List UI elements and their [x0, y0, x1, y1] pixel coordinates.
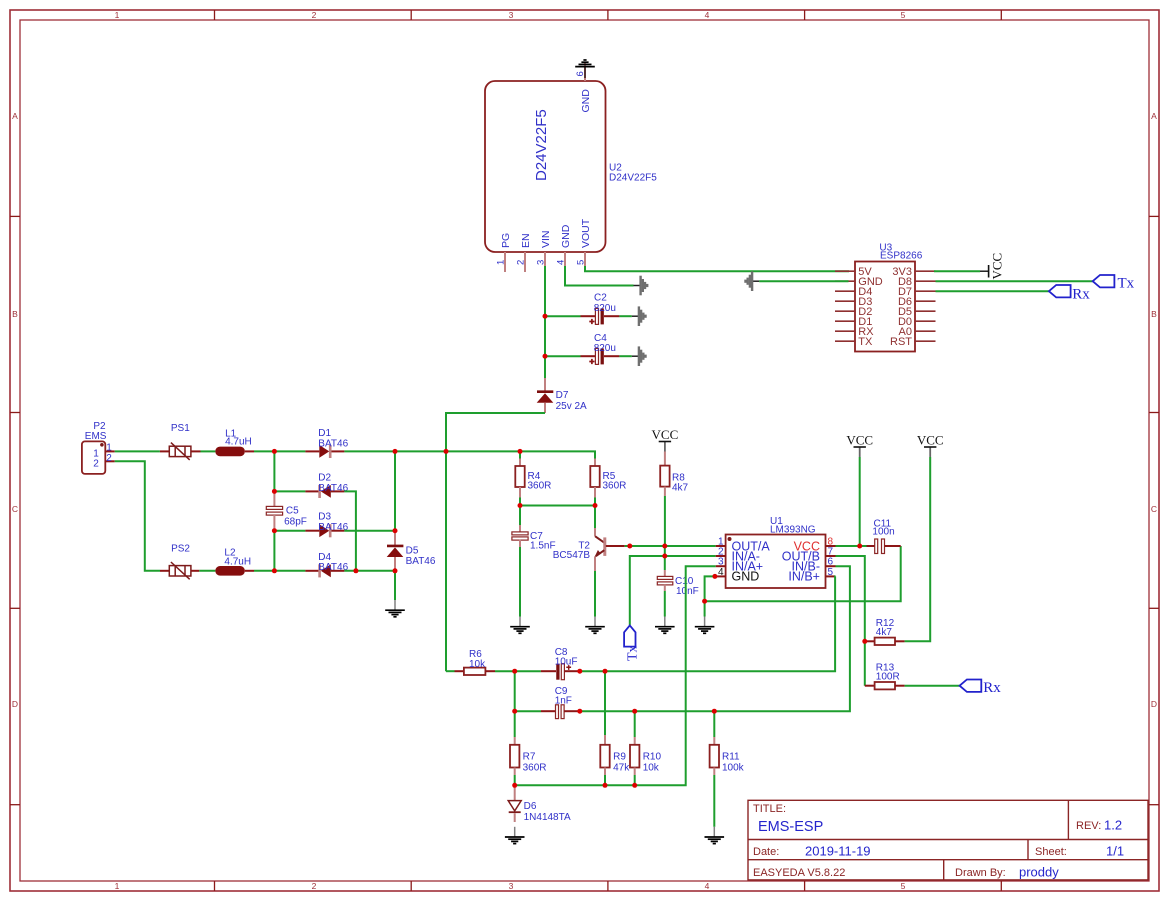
port Tx (bottom): [624, 625, 635, 646]
svg-text:BAT46: BAT46: [318, 522, 348, 533]
node C10/row2: [662, 554, 667, 559]
capacitor C4: [581, 355, 596, 357]
wire D7 to Rx port: [936, 290, 1049, 292]
svg-text:GND: GND: [732, 570, 760, 584]
wire U1 pin6 down to C9 row: [580, 566, 850, 711]
svg-text:VIN: VIN: [540, 230, 552, 248]
svg-text:BAT46: BAT46: [318, 483, 348, 494]
ground below D6: [505, 827, 525, 844]
ground at C4 (arrow): [632, 346, 646, 366]
wire C4 right: [619, 355, 631, 357]
node R10 top: [632, 709, 637, 714]
svg-text:IN/B+: IN/B+: [788, 570, 820, 584]
svg-text:TITLE:: TITLE:: [753, 803, 786, 815]
svg-text:EN: EN: [520, 233, 532, 248]
resistor R4 360R: [519, 451, 521, 458]
svg-text:3: 3: [536, 260, 547, 265]
ground at U2 pin4 (arrow): [634, 276, 648, 296]
U1 pin 7 OUT/B: [826, 555, 836, 557]
svg-text:4: 4: [556, 260, 567, 265]
wire D2 row left: [274, 490, 305, 492]
svg-text:1.5nF: 1.5nF: [530, 541, 556, 552]
svg-text:D7: D7: [556, 390, 569, 401]
node gnd link: [702, 599, 707, 604]
wire x395 vertical: [394, 451, 396, 531]
U2 pin 2 EN: [524, 252, 526, 272]
fuse PS2: [160, 570, 169, 572]
wire PS1 to L1: [201, 450, 216, 452]
wire C10 to ground: [664, 591, 666, 617]
resistor R12 4k7: [865, 640, 875, 642]
node base wire: [627, 544, 632, 549]
svg-text:TX: TX: [858, 336, 873, 348]
svg-text:R11: R11: [722, 752, 740, 763]
node R8/C10 top: [662, 544, 667, 549]
diode D5 BAT46 (vertical): [394, 532, 396, 546]
resistor R10 10k: [634, 711, 636, 737]
svg-text:D3: D3: [318, 512, 331, 523]
svg-text:D6: D6: [524, 801, 537, 812]
wire U1 pin5 down to C8 row: [580, 576, 836, 671]
ground below R11: [705, 827, 725, 844]
svg-text:6: 6: [575, 71, 586, 76]
svg-text:D24V22F5: D24V22F5: [609, 173, 657, 184]
wire PS2 to L2: [199, 570, 215, 572]
svg-text:EASYEDA V5.8.22: EASYEDA V5.8.22: [753, 867, 845, 879]
svg-text:EMS: EMS: [85, 431, 107, 442]
wire R12 to VCC: [905, 457, 931, 641]
wire T2 emitter to ground: [594, 571, 596, 617]
svg-text:A: A: [12, 111, 18, 121]
svg-text:D4: D4: [318, 552, 331, 563]
wire C2 right: [619, 315, 631, 317]
wire gnd link to C11 right: [705, 546, 901, 601]
wire P2.1 to PS1: [115, 450, 160, 452]
svg-text:100n: 100n: [872, 527, 894, 538]
node bottom row R10: [632, 783, 637, 788]
svg-text:D: D: [12, 699, 18, 709]
fuse PS1: [160, 450, 169, 452]
connector P2 EMS: [82, 441, 105, 474]
capacitor C10 10nF: [664, 546, 666, 570]
node D3/x395 junction: [393, 528, 398, 533]
svg-text:820u: 820u: [594, 343, 616, 354]
svg-text:1.2: 1.2: [1104, 818, 1122, 833]
svg-text:4.7uH: 4.7uH: [224, 556, 251, 567]
node D4/x395 junction: [393, 568, 398, 573]
capacitor C5 68pF: [273, 491, 275, 506]
wire D1 to R4/R5 rail: [344, 451, 595, 458]
U1 pin 2 IN/A-: [716, 555, 726, 557]
svg-text:ESP8266: ESP8266: [880, 251, 923, 262]
svg-text:GND: GND: [580, 89, 592, 113]
node rail x395: [393, 449, 398, 454]
wire 3V3 to VCC: [934, 270, 980, 272]
U1 pin 3 IN/A+: [716, 565, 726, 567]
wire R6 to C8: [495, 670, 541, 672]
svg-text:D2: D2: [318, 472, 331, 483]
wire VOUT to U3 5V: [585, 266, 849, 271]
wire D4 row to x395: [344, 570, 395, 572]
svg-text:360R: 360R: [603, 481, 627, 492]
port Rx: [1049, 285, 1071, 297]
svg-text:2: 2: [312, 881, 317, 891]
node L2/D4 junction: [272, 568, 277, 573]
svg-text:4.7uH: 4.7uH: [225, 437, 252, 448]
svg-text:Rx: Rx: [1072, 287, 1090, 303]
wire R6 row from x446: [446, 670, 455, 672]
ground below C7: [510, 617, 530, 634]
U3 body: [855, 262, 915, 352]
wire U1 pin3 to bottom row: [515, 566, 716, 785]
node R7 top junction: [512, 669, 517, 674]
capacitor C7 1.5nF: [519, 506, 521, 526]
node bottom row R9: [603, 783, 608, 788]
wire P2.2 down and to PS2: [115, 461, 160, 571]
ground above U2 pin 6 (inverted earth): [575, 60, 595, 67]
svg-text:100R: 100R: [876, 672, 900, 683]
ground below D5: [385, 600, 405, 617]
node R11 top: [712, 709, 717, 714]
node rail R4 top: [518, 449, 523, 454]
diode D2 BAT46 (pointing left): [305, 490, 318, 492]
resistor R9 47k: [604, 671, 606, 735]
VCC flag above R8: [652, 427, 679, 452]
diode D6 1N4148TA: [514, 785, 516, 800]
svg-text:C: C: [1151, 504, 1157, 514]
node L1/D1 junction: [272, 449, 277, 454]
svg-text:2: 2: [516, 260, 527, 265]
svg-text:BAT46: BAT46: [318, 562, 348, 573]
svg-text:10k: 10k: [469, 659, 486, 670]
wire U1 pin4 GND: [705, 576, 716, 616]
svg-text:1nF: 1nF: [555, 696, 572, 707]
svg-text:1: 1: [115, 881, 120, 891]
svg-text:PS1: PS1: [171, 423, 190, 434]
P2 pin 1: [105, 450, 114, 452]
svg-text:proddy: proddy: [1019, 865, 1059, 880]
port Tx: [1093, 275, 1115, 287]
svg-text:Tx: Tx: [1118, 276, 1135, 292]
U1 pin 5 IN/B+: [826, 575, 836, 577]
resistor R5 360R: [594, 459, 596, 467]
svg-text:5: 5: [576, 260, 587, 265]
svg-text:PS2: PS2: [171, 544, 190, 555]
VCC net flag at U3 3V3 (rotated): [980, 270, 989, 272]
U3 left pins 5V GND D4 D3 D2 D1 RX TX: [835, 271, 855, 341]
svg-text:1: 1: [496, 260, 507, 265]
wire D2 to vertical x356: [344, 491, 356, 570]
svg-text:10nF: 10nF: [676, 586, 699, 597]
svg-text:Sheet:: Sheet:: [1035, 846, 1067, 858]
svg-text:BC547B: BC547B: [553, 550, 591, 561]
resistor R6 10k: [455, 670, 464, 672]
U2 pin 5 VOUT: [584, 252, 586, 267]
wire U2 GND pin4: [565, 266, 634, 286]
resistor R13 100R: [865, 685, 875, 687]
svg-text:VOUT: VOUT: [580, 218, 592, 248]
svg-text:4: 4: [705, 10, 710, 20]
wire T2 base lead: [606, 545, 625, 547]
wire L1 to D1: [254, 450, 305, 452]
TITLE BLOCK: [748, 800, 1148, 880]
wire U1 pin8 to C11: [836, 545, 867, 547]
svg-text:D24V22F5: D24V22F5: [533, 109, 550, 181]
svg-text:820u: 820u: [594, 303, 616, 314]
svg-text:2: 2: [93, 458, 99, 469]
node C9 right: [577, 709, 582, 714]
svg-text:4k7: 4k7: [876, 627, 893, 638]
svg-text:2: 2: [106, 453, 112, 464]
svg-text:GND: GND: [560, 224, 572, 248]
ground below U1 pin4: [695, 617, 715, 634]
svg-text:EMS-ESP: EMS-ESP: [758, 819, 823, 835]
wire IN/A- row: [630, 556, 716, 625]
U2 pin 3 VIN: [544, 252, 546, 267]
svg-text:1N4148TA: 1N4148TA: [524, 812, 571, 823]
svg-text:LM393NG: LM393NG: [770, 524, 816, 535]
resistor R7 360R: [514, 737, 516, 745]
svg-text:2: 2: [312, 10, 317, 20]
diode D7 25v 2A: [544, 378, 546, 391]
svg-text:B: B: [1151, 309, 1157, 319]
svg-text:100k: 100k: [722, 763, 745, 774]
svg-text:5: 5: [901, 881, 906, 891]
wire C9 row left: [515, 710, 541, 712]
ground below C10: [655, 617, 675, 634]
U2 pin 1 PG: [504, 252, 506, 272]
svg-text:Rx: Rx: [983, 680, 1001, 696]
VCC flag above U1 pin8: [846, 433, 873, 458]
svg-text:360R: 360R: [523, 763, 547, 774]
ground below T2: [585, 617, 605, 634]
wire R13 to Rx port: [905, 685, 960, 687]
svg-text:68pF: 68pF: [284, 517, 307, 528]
wire C4 left: [545, 355, 581, 357]
node D4/x356 junction: [353, 568, 358, 573]
capacitor C11 100n: [867, 545, 875, 547]
svg-text:5: 5: [901, 10, 906, 20]
ground at U3 GND (arrow left): [746, 271, 760, 291]
capacitor C8 10uF: [541, 670, 556, 672]
node R9 top: [603, 669, 608, 674]
wire D5 to ground: [394, 571, 396, 600]
wire C2 left: [545, 315, 581, 317]
svg-text:BAT46: BAT46: [318, 438, 348, 449]
svg-text:D: D: [1151, 699, 1157, 709]
U2 body: [485, 81, 606, 252]
svg-text:4k7: 4k7: [672, 483, 689, 494]
resistor R8 4k7: [664, 452, 666, 466]
U1 pin 8 VCC: [826, 545, 836, 547]
node C9 left: [512, 709, 517, 714]
node D3 junction: [272, 528, 277, 533]
svg-text:D1: D1: [318, 428, 331, 439]
resistor R11 100k: [713, 711, 715, 737]
U2 pin 6 GND top: [584, 62, 586, 82]
U1 body: [726, 535, 826, 589]
svg-text:2019-11-19: 2019-11-19: [805, 844, 871, 859]
svg-text:3: 3: [509, 881, 514, 891]
svg-text:4: 4: [705, 881, 710, 891]
node bottom row R7: [512, 783, 517, 788]
ground at C2 (arrow): [632, 306, 646, 326]
node main rail junction: [444, 449, 449, 454]
inductor L2 4.7uH: [215, 566, 244, 576]
svg-text:VCC: VCC: [990, 253, 1005, 280]
svg-text:360R: 360R: [528, 481, 552, 492]
svg-text:R7: R7: [523, 752, 536, 763]
svg-text:4: 4: [718, 567, 724, 578]
U3 right pins 3V3 D8 D7 D6 D5 D0 A0 RST: [915, 271, 936, 341]
node R4 bottom: [518, 503, 523, 508]
svg-text:Drawn By:: Drawn By:: [955, 867, 1006, 879]
svg-text:R10: R10: [643, 752, 662, 763]
capacitor C9 1nF: [541, 710, 555, 712]
U2 pin 4 GND: [564, 252, 566, 267]
svg-text:C: C: [12, 504, 18, 514]
svg-text:3: 3: [509, 10, 514, 20]
P2 pin 2: [105, 460, 114, 462]
wire x514 vertical to R7: [514, 671, 516, 737]
svg-text:10uF: 10uF: [555, 657, 578, 668]
wire D3 to x395: [344, 530, 395, 532]
VCC flag above R12: [917, 433, 944, 458]
wire L2 to D4: [254, 570, 305, 572]
svg-text:1/1: 1/1: [1106, 844, 1124, 859]
capacitor C2: [581, 315, 596, 317]
svg-text:Tx: Tx: [626, 645, 641, 661]
U1 pin 4 GND: [716, 575, 726, 577]
port Rx (bottom): [960, 680, 982, 692]
svg-text:5: 5: [828, 567, 834, 578]
node pin4: [712, 574, 717, 579]
diode D3 BAT46: [305, 530, 319, 532]
svg-text:RST: RST: [890, 336, 912, 348]
wire U1 pin7 down: [836, 556, 865, 686]
wire D8 to Tx port: [936, 280, 1093, 282]
transistor T2 BC547B: [594, 506, 596, 529]
node R5 bottom: [593, 503, 598, 508]
svg-text:25v 2A: 25v 2A: [556, 401, 587, 412]
svg-text:B: B: [12, 309, 18, 319]
wire D7 bottom to left: [446, 413, 545, 671]
inductor L1 4.7uH: [215, 447, 244, 457]
svg-text:10k: 10k: [643, 763, 660, 774]
svg-text:C5: C5: [286, 506, 299, 517]
svg-text:D5: D5: [406, 545, 419, 556]
wire R4-R5 bottom row: [520, 505, 595, 507]
svg-text:1: 1: [115, 10, 120, 20]
wire vertical x274 to D4 row: [273, 531, 275, 571]
wire D3 row left: [274, 530, 305, 532]
svg-text:PG: PG: [500, 233, 512, 248]
svg-text:REV:: REV:: [1076, 820, 1101, 832]
wire VCC2 vertical: [859, 457, 861, 546]
svg-text:R9: R9: [613, 752, 626, 763]
wire VIN vertical: [544, 266, 546, 378]
wire vertical bridge x274: [273, 451, 275, 492]
node C4 junction: [543, 354, 548, 359]
wire U3 GND to ground: [759, 280, 848, 282]
svg-text:BAT46: BAT46: [406, 556, 436, 567]
U1 pin1 dot: [728, 537, 732, 541]
wire C7 to ground: [519, 547, 521, 617]
node VCC2 junction: [857, 544, 862, 549]
node C8 right: [577, 669, 582, 674]
node D2 junction: [272, 489, 277, 494]
svg-text:A: A: [1151, 111, 1157, 121]
node C2 junction: [543, 314, 548, 319]
U1 pin 1 OUT/A: [716, 545, 726, 547]
node R12 junction: [862, 639, 867, 644]
svg-text:47k: 47k: [613, 763, 630, 774]
diode D1 BAT46: [305, 450, 319, 452]
svg-text:Date:: Date:: [753, 846, 779, 858]
U1 pin 6 IN/B-: [826, 565, 836, 567]
diode D4 BAT46 (pointing left): [305, 570, 318, 572]
